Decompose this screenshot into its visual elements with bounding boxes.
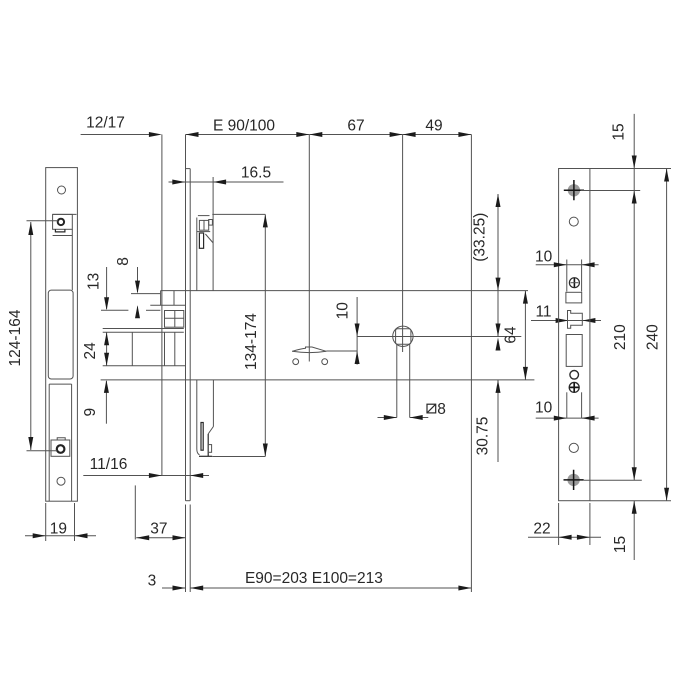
svg-text:8: 8 xyxy=(115,257,132,266)
dimension square 8 xyxy=(378,401,446,420)
dimension 15 bottom xyxy=(612,501,637,560)
extension line clip axis (x=309.3) xyxy=(308,135,310,362)
svg-text:10: 10 xyxy=(535,400,553,417)
svg-text:3: 3 xyxy=(148,573,157,590)
cylinder housing box xyxy=(103,332,186,366)
dimension E90=203 E100=213 xyxy=(190,570,471,591)
svg-text:37: 37 xyxy=(150,521,167,538)
plate slot xyxy=(48,290,73,501)
hole below big slot xyxy=(570,371,579,380)
svg-text:E90=203 E100=213: E90=203 E100=213 xyxy=(245,570,383,587)
svg-text:13: 13 xyxy=(86,273,103,290)
svg-text:E 90/100: E 90/100 xyxy=(213,118,275,135)
svg-text:124-164: 124-164 xyxy=(7,309,24,366)
svg-text:10: 10 xyxy=(334,302,351,320)
svg-text:16.5: 16.5 xyxy=(241,165,271,182)
dimension 9 xyxy=(82,380,109,424)
svg-text:8: 8 xyxy=(437,401,446,418)
dimension 210 xyxy=(612,324,637,480)
small screw xyxy=(569,278,579,288)
dimension 13 xyxy=(86,267,110,310)
extension line latch front (x=162) xyxy=(161,135,163,477)
hole below screw top xyxy=(569,217,578,226)
left strike plate front view xyxy=(46,168,78,502)
dimension 3 xyxy=(148,573,186,591)
keeper top xyxy=(53,214,77,290)
svg-text:(33.25): (33.25) xyxy=(471,213,488,262)
dimension 67 xyxy=(309,118,402,138)
dimension 16.5 xyxy=(169,165,284,185)
big slot xyxy=(566,335,582,367)
dimension 134-174 xyxy=(243,214,268,456)
svg-text:12/17: 12/17 xyxy=(86,115,125,132)
spring clip xyxy=(292,347,357,365)
faceplate side view xyxy=(186,135,191,593)
dimension 22 xyxy=(528,503,601,545)
svg-text:240: 240 xyxy=(644,324,661,350)
dimension 240 xyxy=(644,169,669,501)
svg-text:67: 67 xyxy=(347,118,364,135)
dimension 124-164 xyxy=(7,221,58,451)
dimension 19 xyxy=(25,503,96,541)
latch internals: double line xyxy=(103,328,184,330)
svg-text:15: 15 xyxy=(611,123,628,140)
dimension 24 xyxy=(82,332,109,366)
keeper bottom xyxy=(51,438,70,485)
spindle hole with square follower xyxy=(393,326,413,417)
slot rectangle 1 xyxy=(566,292,582,303)
screw bottom xyxy=(564,470,642,490)
bottom latch detail xyxy=(197,380,265,457)
latch internals: mid lines xyxy=(101,309,160,311)
latch internals left of faceplate: upper box xyxy=(131,291,185,306)
screw below big slot xyxy=(569,382,579,392)
dimension E 90/100 xyxy=(186,118,310,138)
dimension 11 (to strike plate) xyxy=(531,304,601,324)
svg-text:24: 24 xyxy=(82,342,99,360)
svg-text:19: 19 xyxy=(50,521,67,538)
centerline spindle xyxy=(357,336,521,338)
dimension 37 xyxy=(135,485,185,540)
tabbed slot xyxy=(568,311,583,329)
svg-text:22: 22 xyxy=(533,521,550,538)
plate top extension xyxy=(590,168,671,170)
dimension 30.75 xyxy=(475,380,501,462)
dimension (33.25) xyxy=(471,194,500,351)
svg-text:30.75: 30.75 xyxy=(475,417,492,456)
right strike plate rear view xyxy=(559,169,590,501)
latch internals: lower box xyxy=(165,311,184,328)
svg-text:11: 11 xyxy=(535,304,551,321)
svg-text:49: 49 xyxy=(425,118,442,135)
svg-text:134-174: 134-174 xyxy=(243,313,260,370)
dimension 49 xyxy=(403,118,472,138)
leader latch top to 134-174 xyxy=(212,213,265,215)
dimension 11/16 xyxy=(83,456,209,478)
svg-text:210: 210 xyxy=(612,324,629,350)
dimension 64 xyxy=(503,291,528,380)
dimension 10 upper xyxy=(535,249,599,292)
dimension 12/17 xyxy=(81,115,162,138)
dimension 10 lower xyxy=(535,392,599,420)
dimension 15 top xyxy=(611,114,637,480)
lock body outline xyxy=(101,135,535,593)
screw top xyxy=(564,180,640,200)
extension line 16.5 (x=213) xyxy=(212,177,214,291)
dimension 8 xyxy=(115,257,140,318)
dimension 10 (clip) xyxy=(334,297,359,365)
svg-text:64: 64 xyxy=(503,326,520,344)
svg-text:9: 9 xyxy=(82,408,99,417)
extension line spindle axis (x=402.6) xyxy=(402,135,404,353)
svg-text:10: 10 xyxy=(535,249,553,266)
svg-text:15: 15 xyxy=(612,536,629,553)
hole lower xyxy=(569,443,578,452)
top latch bolt detail xyxy=(197,216,213,291)
plate bottom extension xyxy=(590,500,671,502)
svg-text:11/16: 11/16 xyxy=(90,456,128,473)
